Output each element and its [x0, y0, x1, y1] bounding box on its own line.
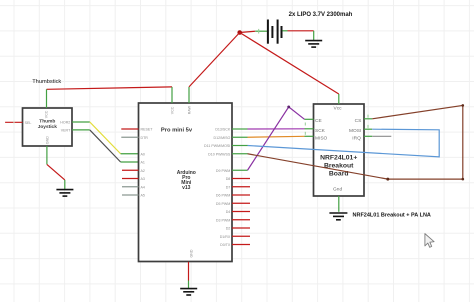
pin D12/MISO — [232, 136, 248, 138]
pin D11 PWM/MOSI — [232, 145, 248, 147]
pin VCC (joystick top) — [46, 89, 48, 108]
pin MOSI — [364, 128, 372, 130]
svg-text:D9 PWM: D9 PWM — [216, 169, 230, 173]
ground (NRF24) — [329, 213, 347, 220]
svg-text:D10 PWM/SS: D10 PWM/SS — [208, 152, 231, 156]
svg-text:NRF24L01 Breakout + PA LNA: NRF24L01 Breakout + PA LNA — [353, 212, 431, 218]
wire: green segment into battery positive — [255, 29, 267, 34]
pin D6 PWM — [232, 194, 250, 196]
wire: D12/MISO to NRF MISO (orange) — [248, 135, 305, 138]
wire: joystick GND to ground (red) — [47, 164, 65, 180]
svg-text:D4: D4 — [226, 210, 231, 214]
wire: green segment from battery negative — [282, 30, 287, 32]
pin IRQ — [364, 135, 372, 137]
pin A5 — [122, 194, 139, 196]
svg-text:RESET: RESET — [141, 128, 154, 132]
svg-text:Vcc: Vcc — [334, 106, 343, 112]
pin DTR — [121, 136, 138, 138]
pin D13/SCK — [232, 128, 248, 130]
ground (Pro Mini) — [180, 289, 197, 295]
wire: IRQ stub (gray) — [372, 135, 391, 137]
wire: battery negative to ground — [288, 30, 314, 32]
pin RAW (top) — [188, 87, 190, 103]
svg-text:HOR2: HOR2 — [60, 121, 70, 125]
svg-text:D13/SCK: D13/SCK — [215, 128, 231, 132]
pin A3 — [122, 178, 139, 180]
svg-text:Thumbstick: Thumbstick — [32, 79, 61, 85]
wire: VERT to A1 (gray) — [90, 130, 121, 162]
Thumbstick net label — [32, 79, 61, 85]
wire: battery junction to left battery terminal — [240, 31, 256, 32]
wire: green into Pro Mini ground — [188, 281, 190, 289]
pin D7 — [232, 186, 250, 188]
svg-text:2x LIPO 3.7V 2300mah: 2x LIPO 3.7V 2300mah — [289, 12, 353, 18]
svg-text:CE: CE — [315, 118, 322, 124]
pin D1/RX — [232, 235, 250, 237]
wire: D10/SS loop to NRF CS (brown) — [248, 104, 465, 181]
svg-text:NRF24L01+: NRF24L01+ — [320, 154, 357, 161]
pin A2 — [122, 169, 139, 171]
svg-text:D7: D7 — [226, 185, 231, 189]
svg-text:D1/RX: D1/RX — [220, 235, 231, 239]
svg-text:Thumb: Thumb — [39, 119, 55, 125]
svg-text:DTR: DTR — [141, 136, 149, 140]
pin Vcc (top) — [338, 94, 340, 104]
pin Gnd (bottom) — [338, 196, 340, 212]
svg-text:CS: CS — [355, 118, 362, 124]
wire: joystick VCC to Pro Mini VCC — [47, 87, 173, 89]
svg-text:A2: A2 — [141, 169, 145, 173]
pin SEL — [5, 121, 22, 123]
svg-text:VERT: VERT — [61, 129, 71, 133]
pin A4 — [122, 186, 139, 188]
ground (joystick) — [56, 190, 73, 197]
svg-text:MISO: MISO — [315, 135, 328, 141]
pin CE — [305, 118, 314, 120]
wire: green into joystick ground — [64, 180, 66, 189]
pin MISO — [305, 135, 314, 137]
svg-text:A3: A3 — [141, 177, 145, 181]
pin D2 — [232, 227, 250, 229]
node: battery junction — [237, 30, 242, 35]
nrf24l01 breakout U2 — [305, 94, 373, 212]
battery BT1 — [268, 20, 282, 44]
wire: junction to Pro Mini RAW pin — [189, 33, 240, 87]
svg-text:D2: D2 — [226, 227, 231, 231]
svg-text:D0/TX: D0/TX — [220, 243, 231, 247]
pin HOR2 — [72, 121, 90, 123]
pin VERT — [72, 129, 90, 131]
NRF24 module label — [353, 212, 431, 218]
svg-text:VCC: VCC — [171, 106, 175, 114]
pin D9 PWM — [232, 169, 248, 171]
pin D10 PWM/SS — [232, 153, 248, 155]
svg-text:IRQ: IRQ — [352, 135, 361, 141]
svg-text:D6 PWM: D6 PWM — [216, 194, 230, 198]
battery value label — [289, 12, 353, 18]
svg-text:RAW: RAW — [188, 105, 192, 114]
pin GND (joystick bottom) — [46, 146, 48, 164]
wire: green into A1 — [121, 161, 139, 163]
svg-text:Gnd: Gnd — [333, 187, 342, 193]
svg-text:v13: v13 — [182, 185, 191, 191]
svg-text:A1: A1 — [141, 161, 145, 165]
svg-text:SCK: SCK — [315, 128, 326, 134]
svg-text:D3 PWM: D3 PWM — [216, 218, 230, 222]
wire: D11/MOSI loop to NRF MOSI (blue) — [248, 129, 440, 157]
pin D3 PWM — [232, 219, 250, 221]
svg-text:GND: GND — [189, 249, 193, 257]
pin CS — [364, 118, 372, 120]
svg-text:MOSI: MOSI — [349, 128, 361, 134]
svg-text:VCC: VCC — [45, 110, 49, 118]
pin VCC (top) — [171, 87, 173, 103]
svg-text:D8: D8 — [226, 177, 231, 181]
svg-text:Joystick: Joystick — [38, 124, 58, 130]
svg-text:SEL: SEL — [25, 121, 32, 125]
wire: junction to NRF24 Vcc pin — [240, 33, 339, 95]
svg-text:GND: GND — [46, 136, 50, 144]
pin RESET — [121, 128, 138, 130]
svg-text:Pro mini 5v: Pro mini 5v — [161, 127, 193, 133]
thumb joystick U3 — [5, 89, 90, 164]
svg-text:A5: A5 — [141, 194, 145, 198]
wire: down to battery ground — [313, 31, 315, 40]
pin D0/TX — [232, 244, 250, 246]
pin SCK — [305, 128, 314, 130]
svg-text:D5 PWM: D5 PWM — [216, 202, 230, 206]
ground (battery) — [305, 41, 322, 48]
svg-text:D12/MISO: D12/MISO — [214, 136, 231, 140]
wire: D9 to NRF CE (purple) — [248, 106, 305, 171]
wire: green into A0 — [121, 153, 139, 155]
pin D5 PWM — [232, 202, 250, 204]
pin D8 — [232, 178, 250, 180]
wire: Pro Mini GND down (red) — [188, 262, 190, 281]
arduino pro mini U1 — [121, 87, 250, 262]
mouse cursor — [425, 234, 434, 248]
pin D4 — [232, 211, 250, 213]
svg-text:D11 PWM/MOSI: D11 PWM/MOSI — [204, 144, 230, 148]
wire: D13/SCK to NRF SCK (purple) — [248, 128, 305, 130]
svg-text:A4: A4 — [141, 185, 145, 189]
wire: HOR2 to A0 (yellow) — [90, 122, 121, 154]
svg-text:A0: A0 — [141, 152, 145, 156]
